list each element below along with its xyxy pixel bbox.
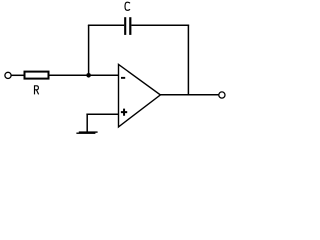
wire op-amp output [160,94,219,96]
wire non-inverting input to ground branch [86,113,119,115]
op-amp inverting pin minus sign [121,77,125,79]
node A junction dot [86,73,91,78]
label C [125,2,130,10]
wire junction up to feedback branch [88,25,90,75]
node VOUT output terminal [219,92,225,98]
op-amp U1 triangle [119,64,161,127]
wire resistor to op-amp inverting input [50,74,120,76]
wire feedback top left to capacitor [88,24,124,26]
resistor R [25,72,49,79]
capacitor C right plate [129,17,131,35]
wire input terminal to resistor R [11,74,24,76]
ground [79,131,98,132]
op-amp non-inverting pin plus sign [121,109,127,116]
wire capacitor to feedback right branch [131,24,189,26]
wire ground branch down [86,114,88,132]
capacitor C left plate [124,17,126,35]
wire feedback right branch down to output [187,25,189,95]
node VIN input terminal [5,72,11,78]
label R [35,86,39,95]
